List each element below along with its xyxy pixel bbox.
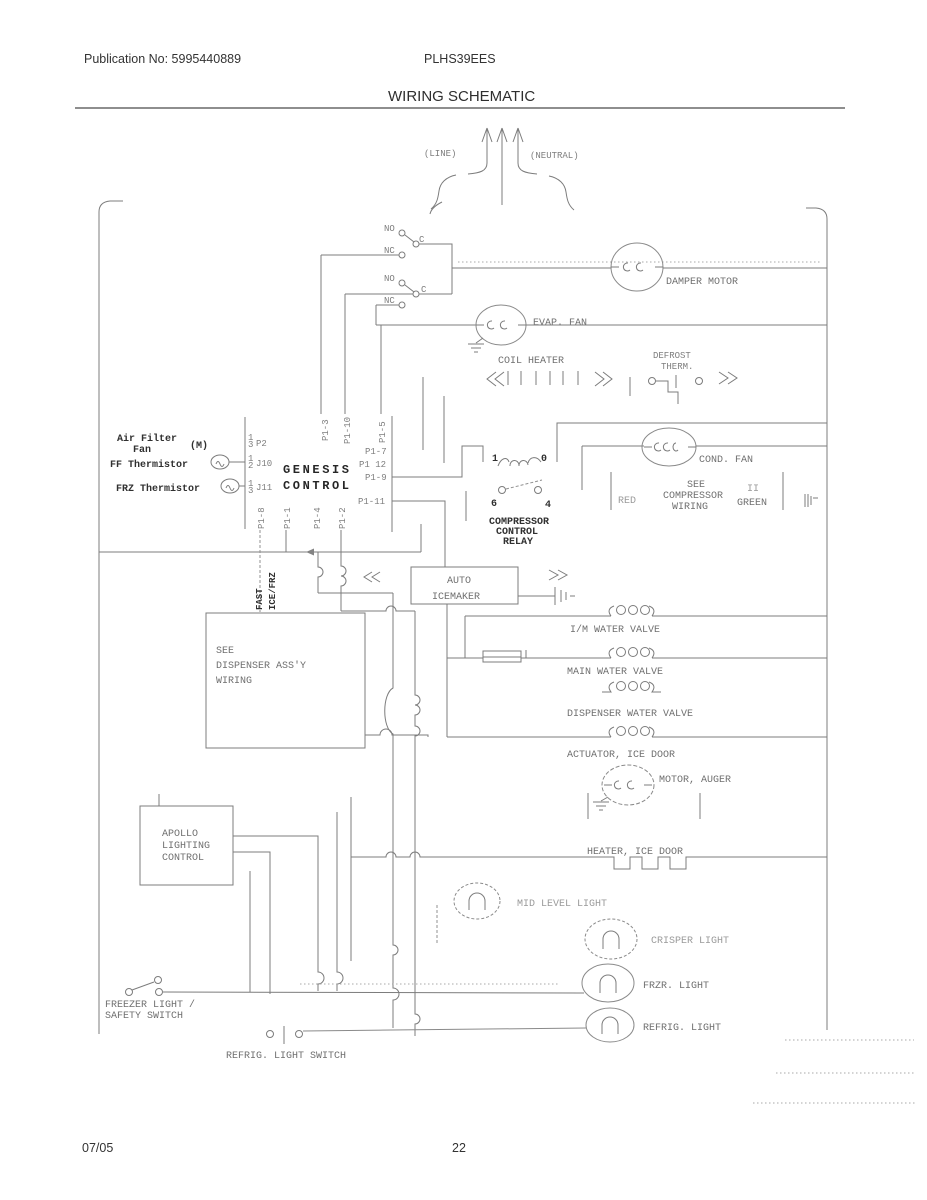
column bar right of auger — [699, 793, 701, 819]
compressor wiring column bar right — [782, 472, 784, 510]
svg-text:HEATER, ICE DOOR: HEATER, ICE DOOR — [587, 847, 683, 858]
wire dispenser box right rail — [365, 729, 428, 737]
svg-text:ICEMAKER: ICEMAKER — [432, 592, 480, 603]
defrost timer switch 1 lever — [405, 235, 414, 242]
svg-text:P2: P2 — [256, 439, 267, 449]
svg-text:SEE: SEE — [216, 646, 234, 657]
svg-text:J11: J11 — [256, 483, 272, 493]
svg-text:ACTUATOR, ICE DOOR: ACTUATOR, ICE DOOR — [567, 750, 675, 761]
svg-text:4: 4 — [545, 500, 551, 511]
wire main valve to border — [652, 657, 827, 659]
wire stub below heater — [629, 377, 631, 396]
svg-text:CONTROL: CONTROL — [162, 853, 204, 864]
wire icemaker to main valve — [446, 604, 448, 658]
compressor control relay K1 — [491, 454, 551, 511]
svg-text:P1-1: P1-1 — [283, 507, 293, 529]
svg-text:FAST: FAST — [255, 588, 265, 610]
wire P1-11 lead — [392, 501, 445, 567]
wire apollo out A — [233, 836, 324, 991]
wire C1 to damper node — [419, 244, 452, 294]
svg-text:MID LEVEL LIGHT: MID LEVEL LIGHT — [517, 899, 607, 910]
wire cond fan drop — [581, 446, 583, 490]
I/M water valve solenoid L1 — [609, 606, 654, 617]
border left rounded corner — [99, 201, 123, 212]
dotted scan artifact above damper line — [458, 261, 822, 263]
wire evap fan to right border — [526, 324, 827, 326]
wire P1-10 vertical — [344, 294, 346, 414]
svg-text:FRZR. LIGHT: FRZR. LIGHT — [643, 981, 709, 992]
svg-text:P1-2: P1-2 — [338, 507, 348, 529]
wire relay pin6 stub — [465, 491, 467, 521]
wire NC1 left lead — [321, 254, 399, 256]
wire refrig switch to lamp — [303, 1028, 586, 1031]
icemaker capacitor lead — [518, 595, 555, 597]
svg-text:Fan: Fan — [133, 445, 151, 456]
dotted rail artifact — [300, 983, 560, 985]
chevron marker right of icemaker — [549, 570, 567, 580]
svg-text:PLHS39EES: PLHS39EES — [424, 52, 496, 66]
svg-text:P1-7: P1-7 — [365, 447, 387, 457]
bottom rail to freezer light — [163, 992, 584, 993]
svg-text:J10: J10 — [256, 459, 272, 469]
svg-text:P1-9: P1-9 — [365, 473, 387, 483]
mid level light dashed drop — [436, 905, 438, 945]
svg-text:EVAP. FAN: EVAP. FAN — [533, 318, 587, 329]
svg-text:P1-8: P1-8 — [257, 507, 267, 529]
svg-text:07/05: 07/05 — [82, 1141, 113, 1155]
svg-text:FF Thermistor: FF Thermistor — [110, 459, 188, 471]
svg-text:THERM.: THERM. — [661, 362, 693, 372]
FF thermistor RT1 — [211, 455, 245, 469]
apollo box top tick — [158, 794, 160, 806]
heater ice door resistor meander — [608, 857, 692, 869]
wire evap fan feed — [376, 324, 478, 326]
wire apollo out B — [233, 852, 270, 994]
dotted note line 3 — [753, 1102, 916, 1104]
main water valve line left — [447, 657, 483, 659]
power plug prong NEUTRAL arrow — [513, 128, 523, 163]
relay contact 6 — [499, 487, 506, 494]
svg-text:P1 12: P1 12 — [359, 460, 386, 470]
wire fuse to solenoid — [521, 657, 611, 659]
wire damper to right border — [663, 267, 827, 269]
svg-text:WIRING SCHEMATIC: WIRING SCHEMATIC — [388, 88, 535, 105]
defrost timer switch 2 contact NC — [399, 302, 405, 308]
long vertical x=415 — [415, 611, 420, 1036]
defrost timer switch 2 contact NO — [399, 280, 405, 286]
relay coil — [498, 458, 541, 466]
relay lever dashed — [506, 480, 542, 489]
svg-text:Air Filter: Air Filter — [117, 433, 177, 445]
column bar left of auger — [587, 793, 589, 819]
freezer light safety switch S1 — [126, 977, 163, 996]
wire NEUTRAL lead S-curve — [549, 176, 574, 210]
wire relay pin0 up and right to border — [557, 423, 827, 462]
wire actuator line left — [446, 658, 448, 737]
svg-text:ICE/FRZ: ICE/FRZ — [268, 572, 278, 610]
long vertical x=393 — [385, 593, 399, 1028]
junction arrow on rail — [306, 549, 314, 556]
main water valve solenoid L2 — [609, 648, 614, 658]
svg-text:FRZ Thermistor: FRZ Thermistor — [116, 483, 200, 495]
auger motor — [602, 765, 654, 805]
wire P1-8 dashed FAST ICE/FRZ — [259, 530, 261, 612]
svg-text:RELAY: RELAY — [503, 537, 533, 548]
coil heater element — [487, 371, 612, 386]
title rule — [75, 107, 845, 109]
svg-text:1: 1 — [492, 454, 498, 465]
defrost thermostat — [649, 375, 703, 404]
svg-text:(M): (M) — [190, 440, 208, 452]
svg-text:DEFROST: DEFROST — [653, 351, 691, 361]
border right rounded corner — [806, 208, 827, 219]
genesis control left edge — [244, 417, 246, 529]
svg-text:P1-4: P1-4 — [313, 507, 323, 529]
power plug prong LINE arrow — [482, 128, 492, 163]
svg-text:I/M WATER VALVE: I/M WATER VALVE — [570, 624, 660, 636]
wire cond fan feed — [582, 445, 644, 447]
svg-text:CONTROL: CONTROL — [283, 479, 352, 493]
svg-text:6: 6 — [491, 499, 497, 510]
svg-text:COND. FAN: COND. FAN — [699, 455, 753, 466]
svg-text:REFRIG. LIGHT: REFRIG. LIGHT — [643, 1023, 721, 1034]
relay contact 4 — [535, 487, 542, 494]
svg-text:DISPENSER WATER VALVE: DISPENSER WATER VALVE — [567, 709, 693, 720]
defrost timer switch 2 lever — [405, 285, 414, 292]
svg-text:P1-10: P1-10 — [343, 417, 353, 444]
border right vertical — [826, 219, 828, 1030]
wire horizontal y=593 — [318, 592, 393, 594]
svg-text:AUTO: AUTO — [447, 576, 471, 587]
wire actuator to border — [652, 736, 827, 738]
svg-text:DISPENSER ASS'Y: DISPENSER ASS'Y — [216, 660, 306, 672]
svg-text:3: 3 — [248, 486, 253, 496]
svg-text:APOLLO: APOLLO — [162, 829, 198, 840]
fuse on main valve line — [483, 650, 526, 662]
ground at evap fan — [468, 338, 484, 352]
defrost timer switch 1 contact NO — [399, 230, 405, 236]
wire I/M valve drop — [464, 616, 466, 658]
apollo lighting control box — [140, 806, 233, 885]
svg-text:SEE: SEE — [687, 480, 705, 491]
wire P1-9 to relay coil staircase — [392, 446, 483, 477]
svg-text:P1-3: P1-3 — [321, 419, 331, 441]
svg-text:GENESIS: GENESIS — [283, 463, 352, 477]
heater rail left — [351, 852, 608, 857]
wire LINE lead curve — [468, 163, 487, 174]
compressor wiring column bar left — [610, 472, 612, 510]
wire P1-1 down to rail — [285, 530, 287, 552]
svg-text:C: C — [421, 285, 427, 295]
svg-text:MAIN WATER VALVE: MAIN WATER VALVE — [567, 667, 663, 678]
wire cond fan to right border — [696, 445, 827, 447]
svg-text:RED: RED — [618, 496, 636, 507]
svg-text:NO: NO — [384, 224, 395, 234]
freezer light lamp — [582, 964, 634, 1002]
defrost timer switch 1 contact NC — [399, 252, 405, 258]
svg-text:NO: NO — [384, 274, 395, 284]
I/M water valve line left — [465, 615, 611, 617]
wire LINE lead tail — [430, 202, 442, 214]
wire P1-3 vertical — [320, 255, 322, 414]
wire heater to border — [692, 856, 827, 858]
condenser fan motor — [642, 428, 696, 466]
actuator ice door solenoid L4 — [609, 727, 614, 737]
svg-text:II: II — [747, 484, 759, 495]
damper motor — [611, 243, 663, 291]
dispenser water valve solenoid L3 — [602, 682, 614, 692]
border left vertical — [98, 212, 100, 1034]
dotted note line 1 — [785, 1039, 914, 1041]
wire stub right of genesis lower — [443, 396, 445, 463]
defrost timer switch 1 contact C — [413, 241, 419, 247]
connector icon right — [805, 494, 818, 507]
svg-text:GREEN: GREEN — [737, 498, 767, 509]
wire C2 left lead — [345, 293, 413, 295]
icemaker capacitor — [555, 587, 575, 605]
main rail y=552 — [99, 551, 421, 553]
dispenser assy wiring box — [206, 613, 365, 748]
evap fan motor — [476, 305, 526, 345]
crisper light lamp — [585, 919, 637, 959]
wire P1-5 vertical — [380, 325, 382, 414]
wire stub x=421 — [420, 524, 422, 552]
svg-text:22: 22 — [452, 1141, 466, 1155]
svg-text:P1-5: P1-5 — [378, 421, 388, 443]
svg-text:MOTOR, AUGER: MOTOR, AUGER — [659, 775, 731, 786]
svg-text:COIL HEATER: COIL HEATER — [498, 356, 564, 367]
svg-text:LIGHTING: LIGHTING — [162, 841, 210, 852]
svg-text:FREEZER LIGHT /: FREEZER LIGHT / — [105, 999, 195, 1011]
refrig light lamp — [586, 1008, 634, 1042]
svg-text:SAFETY SWITCH: SAFETY SWITCH — [105, 1011, 183, 1022]
svg-text:3: 3 — [248, 440, 253, 450]
dotted note line 2 — [776, 1072, 916, 1074]
genesis control right edge — [391, 416, 393, 532]
svg-text:DAMPER MOTOR: DAMPER MOTOR — [666, 277, 738, 288]
svg-text:Publication No: 5995440889: Publication No: 5995440889 — [84, 52, 241, 66]
svg-text:P1-11: P1-11 — [358, 497, 385, 507]
wire horizontal y=611 with hop — [341, 606, 415, 611]
wire freezer switch riser — [249, 871, 251, 992]
svg-text:WIRING: WIRING — [672, 502, 708, 513]
refrig light switch S2 — [267, 1026, 303, 1044]
wire I/M valve to border — [652, 615, 827, 617]
wire vertical x=351 — [350, 797, 352, 961]
power plug prong ground arrow — [497, 128, 507, 205]
chevron continuation right of defrost therm — [719, 372, 737, 384]
wire P1-2 long vertical with hops — [341, 530, 346, 611]
ground at auger motor — [593, 797, 609, 810]
FRZ thermistor RT2 — [221, 479, 245, 493]
svg-text:REFRIG. LIGHT SWITCH: REFRIG. LIGHT SWITCH — [226, 1051, 346, 1062]
svg-text:2: 2 — [248, 461, 253, 471]
wire damper feed horizontal — [452, 267, 611, 269]
svg-text:WIRING: WIRING — [216, 676, 252, 687]
wire LINE lead S-curve — [431, 175, 456, 209]
svg-text:(NEUTRAL): (NEUTRAL) — [530, 151, 579, 161]
svg-text:COMPRESSOR: COMPRESSOR — [663, 491, 723, 502]
wire NEUTRAL lead curve — [518, 163, 537, 174]
defrost timer switch 2 contact C — [413, 291, 419, 297]
wire stub right of genesis upper — [422, 377, 424, 450]
wire NC2 left lead — [376, 304, 399, 306]
chevron marker left of icemaker — [364, 572, 380, 582]
wire P1-4 long vertical with hops — [318, 552, 323, 593]
auto icemaker box — [411, 567, 518, 604]
svg-text:0: 0 — [541, 454, 547, 465]
mid level light lamp — [454, 883, 500, 919]
wire NC2 down to evap fan — [375, 305, 377, 325]
wire vertical x=337 — [337, 812, 343, 991]
svg-text:CRISPER LIGHT: CRISPER LIGHT — [651, 936, 729, 947]
svg-text:(LINE): (LINE) — [424, 149, 456, 159]
